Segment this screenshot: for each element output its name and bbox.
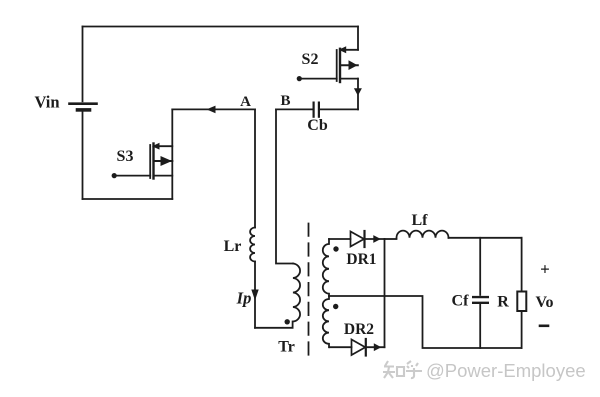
svg-text:DR2: DR2 [344, 321, 374, 338]
capacitor Cf [473, 238, 488, 348]
capacitor Cb [314, 103, 319, 117]
svg-text:S2: S2 [302, 51, 319, 68]
svg-text:R: R [497, 294, 509, 311]
svg-text:B: B [280, 93, 290, 109]
inductor Lr [250, 228, 255, 262]
svg-text:S3: S3 [117, 148, 134, 165]
svg-text:Ip: Ip [236, 289, 252, 308]
current arrow on S2 source [354, 88, 362, 96]
wire A horizontal with left arrow [172, 108, 255, 110]
wire center tap to output return [329, 296, 522, 348]
glyph hu [406, 361, 422, 378]
wire battery to bottom rail [82, 112, 84, 199]
current arrow after DR2 [374, 343, 382, 351]
wire DR2 to junction [366, 346, 385, 348]
battery Vin [70, 104, 97, 110]
resistor R branch [521, 238, 523, 292]
current arrow Ip [251, 290, 258, 301]
wire A down to Lr [254, 109, 256, 227]
wire rectifier junction vertical [384, 239, 386, 347]
wire DR1 to junction [365, 238, 385, 240]
svg-text:+: + [540, 260, 550, 279]
svg-text:@Power-Employee: @Power-Employee [426, 360, 586, 381]
glyph zhi [383, 361, 395, 378]
wire left drop to battery [82, 27, 84, 102]
svg-text:Vo: Vo [535, 294, 553, 311]
primary winding [293, 264, 300, 322]
current arrow on wire A [207, 106, 216, 114]
svg-text:Vin: Vin [34, 93, 59, 112]
transformer core dashed line [308, 224, 310, 362]
wire Lf to right edge [449, 237, 522, 239]
resistor R [517, 292, 526, 312]
wire primary bottom [255, 322, 293, 328]
wire B down to primary top [276, 109, 293, 263]
transistor S2 [297, 46, 358, 82]
svg-text:Lr: Lr [224, 238, 242, 255]
label minus [540, 324, 548, 327]
diode DR2 [352, 339, 366, 356]
svg-text:Lf: Lf [412, 212, 429, 229]
svg-text:Cb: Cb [307, 117, 328, 134]
node A drop wire [171, 109, 173, 199]
wire secondary top to DR1 [329, 238, 351, 240]
watermark [383, 360, 586, 381]
svg-text:DR1: DR1 [346, 251, 376, 268]
wire S2 source down to Cb wire [357, 79, 359, 110]
wire bottom-left rail [83, 198, 173, 200]
wire Lr to primary bottom [254, 262, 256, 328]
wire S2 drain from top rail [357, 27, 359, 50]
inductor Lf [397, 231, 449, 238]
current arrow after DR1 [373, 235, 381, 243]
wire B to Cb [276, 108, 313, 110]
secondary winding 1 [323, 239, 329, 296]
transistor S3 [112, 143, 173, 179]
wire junction to Lf [385, 238, 397, 240]
svg-text:A: A [240, 94, 251, 110]
diode DR1 [351, 231, 365, 247]
polarity dot secondary 2 [333, 304, 338, 309]
secondary winding 2 [323, 296, 329, 347]
wire Cb to S2 [320, 108, 358, 110]
svg-text:Tr: Tr [278, 339, 295, 356]
polarity dot secondary 1 [333, 246, 338, 251]
polarity dot primary [285, 319, 290, 324]
wire secondary bottom to DR2 [330, 346, 352, 348]
svg-text:Cf: Cf [452, 293, 470, 310]
wire top rail [83, 26, 359, 28]
